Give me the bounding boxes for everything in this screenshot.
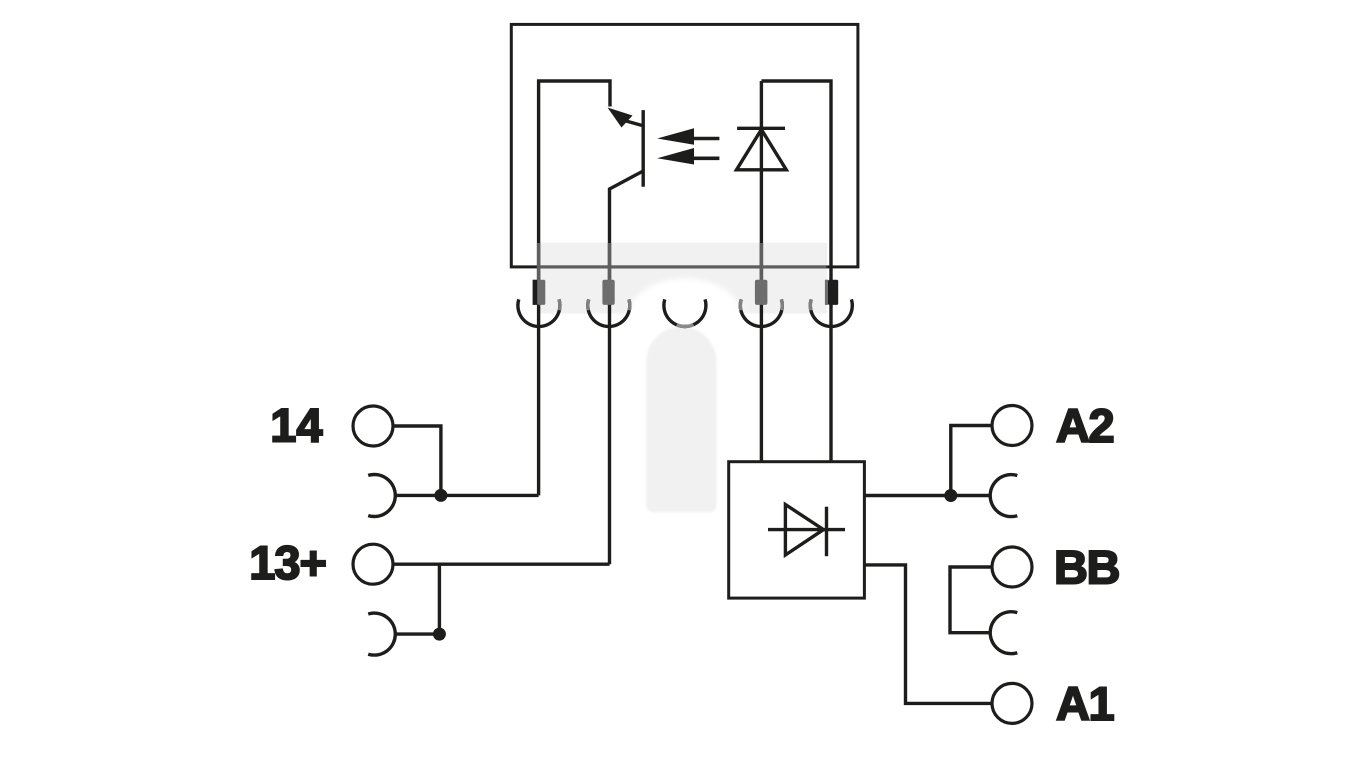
gray wire stub clamp2 (608, 243, 611, 281)
junction dot A2 (944, 489, 957, 502)
junction dot 13+ (433, 628, 446, 641)
wire: transistor top frame (clamp 1 to collector) (539, 81, 610, 327)
terminal circle BB (992, 547, 1032, 587)
gray tips clamp2 (586, 299, 590, 310)
wire 13+ branch down (438, 564, 441, 634)
wire hook13 to junction (396, 632, 440, 635)
gray covered segment of box bottom edge (539, 266, 827, 269)
transistor Q1: phototransistor of optocoupler U1 (642, 110, 645, 187)
terminal circle 14 (353, 406, 393, 446)
wire diode box to A1 (864, 565, 992, 704)
diode D2 triangle (785, 505, 823, 556)
pin in clamp 5 (gray sliver) (825, 280, 828, 305)
pin in clamp 1 (gray part) (537, 280, 545, 305)
terminal circle A2 (992, 406, 1032, 446)
wires from clamps 4,5 down to diode box (760, 327, 763, 462)
gray tips clamp4 (739, 299, 743, 310)
transistor arrow head (608, 108, 633, 128)
hook socket under BB (990, 612, 1017, 654)
terminal clamp 1 (518, 299, 560, 326)
junction dot 14 (434, 489, 447, 502)
module silhouette white dome over clamp 3 (628, 279, 742, 355)
transistor collector diagonal (626, 121, 643, 126)
terminal circle 13+ (353, 544, 393, 584)
gray tip clamp5 left (809, 299, 813, 310)
wire clamp1 down (537, 327, 540, 496)
LED cathode bar (737, 127, 785, 130)
gray wire stub clamp1 (537, 243, 540, 281)
hook socket under A2 (990, 475, 1017, 517)
terminal clamp 3 (664, 299, 706, 326)
wire diode box to A2 node (864, 494, 990, 497)
pin in clamp 4 (755, 280, 768, 305)
gray tip clamp1 right (557, 299, 561, 310)
LED triangle (737, 130, 787, 170)
terminal clamp 4 (740, 299, 782, 326)
gray wire stub clamp4 (760, 243, 763, 281)
terminal clamp 2 (588, 299, 630, 326)
wire A2 circle down to node (951, 426, 992, 496)
light arrow 2 (lower) (657, 148, 694, 165)
svg-text:13+: 13+ (249, 536, 326, 589)
svg-text:A1: A1 (1056, 677, 1113, 730)
big box: optocoupler housing outline (511, 24, 858, 267)
hook socket under 13+ (368, 613, 395, 655)
svg-text:14: 14 (270, 399, 322, 452)
svg-text:BB: BB (1054, 541, 1119, 594)
light arrow 1 (upper) (657, 128, 694, 145)
LED D1: emitter diode of optocoupler (760, 81, 763, 327)
wire clamp2 down (608, 327, 611, 564)
wire: LED frame top (to clamp 5) (761, 81, 831, 327)
wire BB circle to hook (950, 567, 992, 633)
diode D2 cathode bar (825, 507, 828, 557)
module silhouette tongue (646, 327, 716, 512)
pin in clamp 1 (black part) (533, 280, 538, 305)
module silhouette band (538, 243, 828, 314)
pin in clamp 5 (black part) (828, 280, 838, 305)
gray bottom segment clamp3 (under tongue) (677, 325, 694, 327)
terminal clamp 5 (810, 299, 852, 326)
wire 14 circle to junction (393, 426, 441, 495)
pin in clamp 2 (602, 280, 614, 305)
diode D2 horizontal lead (768, 528, 845, 531)
hook socket under 14 (368, 474, 395, 516)
diode box (freewheeling diode module) (729, 462, 865, 598)
wire 13+ to clamp2 (393, 563, 610, 566)
transistor emitter diagonal (610, 171, 644, 327)
svg-text:A2: A2 (1056, 399, 1113, 452)
wire hook14 to clamp1 (396, 494, 539, 497)
terminal circle A1 (992, 683, 1032, 723)
